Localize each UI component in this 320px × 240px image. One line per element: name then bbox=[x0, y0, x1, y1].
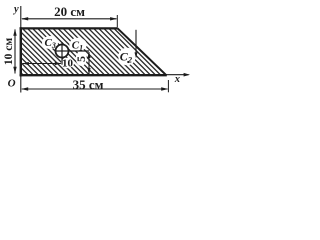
svg-text:20 см: 20 см bbox=[54, 4, 85, 19]
svg-text:35 см: 35 см bbox=[73, 77, 104, 92]
svg-text:10: 10 bbox=[62, 58, 74, 70]
svg-text:y: y bbox=[12, 4, 19, 15]
svg-text:O: O bbox=[8, 77, 16, 89]
svg-text:10 см: 10 см bbox=[3, 38, 15, 65]
svg-text:x: x bbox=[174, 74, 180, 85]
svg-text:5: 5 bbox=[74, 56, 88, 62]
